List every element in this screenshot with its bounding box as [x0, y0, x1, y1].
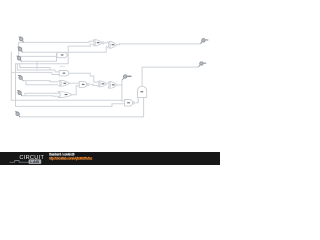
op NAND gate G5	[79, 81, 89, 87]
wire net E: pin5 to OR G3 input 2	[22, 95, 60, 98]
node flag S (mid circuit)	[122, 75, 131, 80]
input node flag 6	[15, 111, 20, 117]
wire W7 tee to AND G1 input 1	[17, 64, 59, 72]
output node flag 2	[199, 62, 207, 67]
op XOR gate G6b	[108, 82, 117, 89]
wire AND G0 output feedback to NAND G7 input 2	[16, 55, 125, 106]
input node flag 5	[17, 90, 22, 96]
CircuitLab logo LAB badge	[29, 159, 42, 164]
op XOR gate G2	[59, 80, 70, 86]
wire NAND G7 output to AND G8 input 1	[136, 97, 138, 102]
wire net A branch to AND G0 input 2	[19, 42, 57, 56]
wire net A: pin1 to XNOR T1 input 1	[19, 41, 93, 42]
wire XOR T2 output to output pin 1	[117, 43, 201, 46]
wire net B: pin2 to XOR T2 input 2	[22, 47, 107, 52]
input node flag 2	[18, 47, 23, 53]
wire AND G1 output staircase to XOR G6 input 1	[69, 73, 98, 82]
input node flag 4	[18, 75, 23, 81]
wire node S riser to flag	[121, 80, 123, 85]
op AND gate G8 (rotated up)	[138, 86, 147, 97]
wire node S to NAND G7 input 1	[122, 99, 125, 102]
op AND gate G1	[59, 71, 69, 76]
input node flag 1	[19, 37, 24, 43]
wire net C: pin3 to AND G0 input 1	[21, 54, 57, 61]
wire node S feedback rail to NAND G7 region	[11, 52, 122, 101]
wire net D branch to XOR G2 input 2	[26, 81, 58, 85]
wire net E branch to OR G3 input 1	[25, 93, 60, 96]
svg-text:LAB: LAB	[30, 159, 39, 164]
wire XOR G6 output to XOR G6b input 1	[106, 83, 107, 85]
wire AND G0 output to XNOR T1 input 2	[66, 44, 93, 55]
wire XOR G6b output to node S	[117, 84, 122, 86]
svg-text:http://circuitlab.com/c/q6z88z: http://circuitlab.com/c/q6z88zf5u5uc	[49, 157, 92, 161]
wire XOR G2 output to NAND G5 input 1	[69, 82, 79, 84]
output node flag 1	[201, 39, 209, 44]
wire AND G8 output to output pin 2	[142, 67, 198, 86]
op OR gate G3	[58, 92, 72, 98]
op AND gate G0	[57, 52, 67, 57]
wire NAND G5 output to XOR G6 input 2	[90, 84, 97, 85]
wire net F: pin6 to AND G8 input 2	[20, 97, 144, 117]
wire XNOR T1 output to XOR T2 input 1	[104, 42, 108, 44]
watermark bar	[0, 152, 220, 165]
wire rail F1 branch to AND G1 input 2	[11, 72, 59, 74]
op XOR gate T2	[108, 41, 117, 48]
input node flag 3	[17, 56, 22, 62]
wire W7 tee upper branch	[20, 64, 50, 70]
op XOR gate G6	[98, 81, 107, 87]
CircuitLab logo step-wire glyph	[10, 161, 29, 163]
wire net D: pin4 to XOR G2 input 1	[23, 81, 58, 82]
wire OR G3 output to NAND G5 input 2	[72, 86, 79, 95]
designator text smudge near gate G0	[60, 65, 65, 68]
wire net C tee down to G1 input rail	[36, 61, 38, 70]
op NAND gate G7	[125, 100, 135, 107]
op XNOR gate T1	[93, 40, 104, 46]
